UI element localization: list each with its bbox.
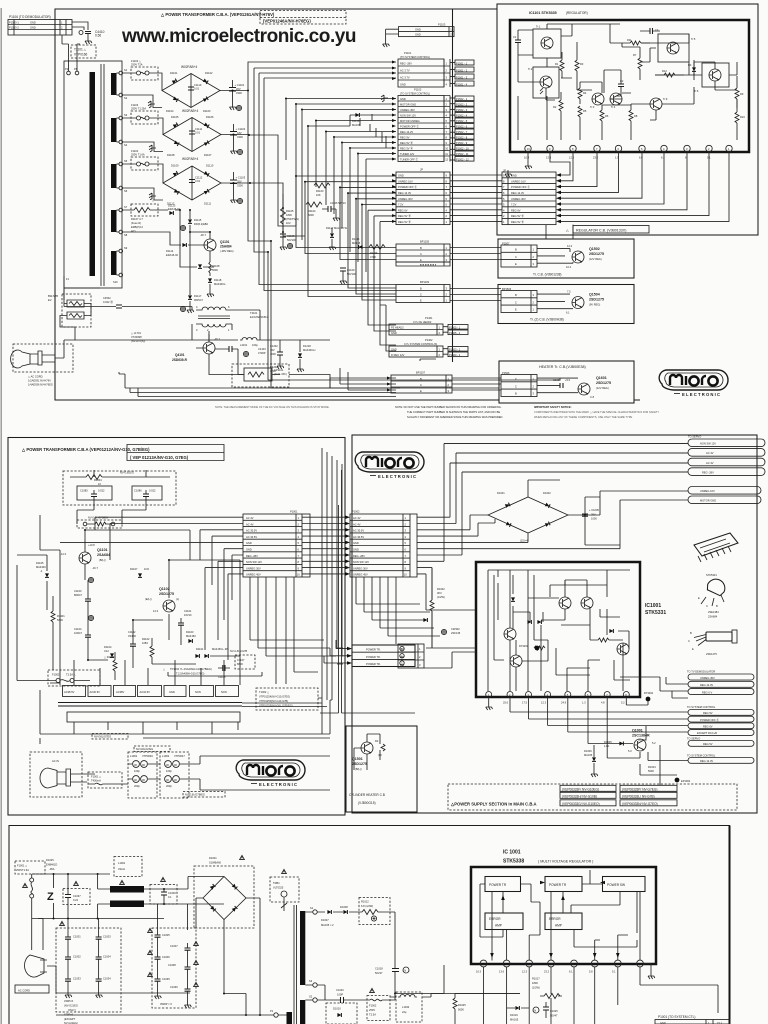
svg-text:P1502 - 3: P1502 - 3 bbox=[456, 108, 468, 112]
svg-text:AC34.5V: AC34.5V bbox=[140, 690, 151, 694]
micro logo top right bbox=[659, 370, 728, 397]
svg-text:UNREG 16V: UNREG 16V bbox=[398, 179, 413, 183]
Tr6 box bbox=[694, 63, 729, 93]
connector BP1107 bbox=[387, 371, 452, 394]
wires below right table bbox=[546, 225, 573, 239]
svg-text:MOTOR GND: MOTOR GND bbox=[700, 499, 716, 503]
resistor R1025 bbox=[453, 998, 466, 1024]
svg-text:D1218: D1218 bbox=[303, 344, 311, 348]
svg-text:IC1001: IC1001 bbox=[645, 603, 661, 609]
svg-text:AC 4V: AC 4V bbox=[246, 516, 254, 520]
capacitor C1102 bbox=[230, 124, 246, 155]
svg-text:Tr.4: Tr.4 bbox=[611, 105, 616, 109]
svg-text:(VEP06333N/ NV-G7EO): (VEP06333N/ NV-G7EO) bbox=[622, 802, 658, 806]
diode D1104 bbox=[104, 645, 114, 657]
wire P1106 to transformer primary bbox=[62, 35, 80, 71]
svg-text:COMPONENTS IDENTIFIED WITH THE: COMPONENTS IDENTIFIED WITH THE MARK △ HA… bbox=[534, 410, 659, 414]
svg-text:GND: GND bbox=[353, 541, 359, 545]
svg-text:P1001 (TO SYSTEM CTL): P1001 (TO SYSTEM CTL) bbox=[658, 1015, 696, 1019]
svg-text:3300: 3300 bbox=[237, 135, 243, 139]
svg-text:D1114: D1114 bbox=[166, 249, 174, 253]
internal transistors bbox=[504, 628, 516, 640]
svg-text:MA4150: MA4150 bbox=[186, 634, 196, 638]
resistor R1017 bbox=[532, 977, 562, 1005]
svg-text:(12V REG): (12V REG) bbox=[596, 386, 609, 390]
svg-text:200p: 200p bbox=[134, 784, 140, 788]
TO SERVO pill2 bbox=[687, 737, 754, 747]
svg-text:100P: 100P bbox=[337, 993, 343, 997]
resistor R1103 bbox=[314, 183, 330, 197]
resistor R1107 fuse resistor bbox=[123, 199, 162, 233]
svg-text:GND: GND bbox=[415, 33, 421, 37]
svg-text:IC1101 STK5335: IC1101 STK5335 bbox=[529, 11, 557, 15]
middle transformer core bbox=[58, 703, 242, 707]
IC1001 STK5331 block bbox=[476, 562, 666, 710]
svg-text:POWER TR: POWER TR bbox=[549, 883, 567, 887]
svg-text:P1502 - 12: P1502 - 12 bbox=[456, 157, 469, 161]
svg-text:250V T2A: 250V T2A bbox=[131, 63, 143, 67]
connector P1401 CYL FE HEADS bbox=[389, 316, 468, 335]
svg-text:AC30.5V: AC30.5V bbox=[90, 690, 101, 694]
svg-text:NON: NON bbox=[221, 690, 227, 694]
svg-text:GND: GND bbox=[391, 331, 397, 335]
svg-text:10.4: 10.4 bbox=[524, 156, 530, 160]
svg-text:REG 5V Ⓝ: REG 5V Ⓝ bbox=[511, 214, 524, 218]
wire lower runs to BP tables bbox=[268, 226, 396, 388]
svg-text:TO SYSTEM CONTROL: TO SYSTEM CONTROL bbox=[687, 754, 716, 758]
secondary winding bars bbox=[111, 73, 117, 95]
svg-text:(B(L)): (B(L)) bbox=[99, 558, 106, 562]
Tr4 transistor bbox=[610, 93, 622, 109]
bridge rectifier 2 bbox=[123, 109, 250, 157]
svg-text:D1113: D1113 bbox=[168, 204, 176, 208]
transistor Q4101 bbox=[172, 334, 220, 363]
svg-text:C1036: C1036 bbox=[170, 985, 178, 989]
svg-text:7.2V: 7.2V bbox=[511, 203, 517, 207]
svg-text:S1: S1 bbox=[124, 68, 128, 72]
svg-text:E1/G7EP0151G: E1/G7EP0151G bbox=[250, 315, 269, 319]
diode D1114 ERA15-02 bbox=[123, 232, 197, 257]
svg-text:6.0: 6.0 bbox=[639, 156, 643, 160]
svg-text:GND: GND bbox=[30, 21, 36, 25]
wire GND run bbox=[264, 78, 396, 291]
capacitor C1103 bbox=[74, 577, 94, 606]
svg-text:S3: S3 bbox=[124, 113, 128, 117]
svg-text:NON SW 12V: NON SW 12V bbox=[353, 560, 369, 564]
svg-text:D1105: D1105 bbox=[36, 561, 44, 565]
svg-text:STK5331: STK5331 bbox=[706, 573, 717, 577]
svg-text:HEATER Tr. C.B.(VJB00E38): HEATER Tr. C.B.(VJB00E38) bbox=[539, 365, 586, 369]
svg-text:1/4AE936 NV-H76EG: 1/4AE936 NV-H76EG bbox=[28, 383, 53, 387]
svg-text:Tr.3: Tr.3 bbox=[590, 105, 595, 109]
svg-text:REG 5V Ⓝ: REG 5V Ⓝ bbox=[511, 220, 524, 224]
connector P1106 (TO DEMODULATOR) bbox=[8, 15, 105, 71]
svg-text:R12: R12 bbox=[662, 69, 667, 73]
svg-text:Tr. (2) C.B. (VJB00H38): Tr. (2) C.B. (VJB00H38) bbox=[530, 318, 564, 322]
svg-text:D1118: D1118 bbox=[214, 278, 222, 282]
test point FP1002 bbox=[644, 691, 654, 701]
svg-text:R4: R4 bbox=[583, 91, 587, 95]
svg-text:+ C1103: + C1103 bbox=[236, 176, 246, 180]
svg-text:POWER OFF Ⓒ: POWER OFF Ⓒ bbox=[398, 185, 417, 189]
svg-text:+ C1005: + C1005 bbox=[589, 508, 599, 512]
svg-text:C1106 50V10: C1106 50V10 bbox=[330, 201, 346, 205]
core lines bbox=[101, 64, 104, 286]
capacitor bank C1005 group bbox=[148, 904, 199, 1008]
svg-text:-05A: -05A bbox=[49, 867, 55, 871]
svg-text:C1102: C1102 bbox=[128, 630, 136, 634]
svg-text:D1110: D1110 bbox=[206, 164, 214, 168]
svg-text:L1001: L1001 bbox=[130, 754, 138, 758]
svg-text:D1005: D1005 bbox=[604, 740, 612, 744]
svg-text:REG 5V: REG 5V bbox=[703, 742, 713, 746]
svg-text:POWER TR.: POWER TR. bbox=[366, 648, 381, 652]
connector P1101 (TO SYSTEM CONTROL) bbox=[392, 51, 474, 87]
svg-text:+ C1101: + C1101 bbox=[235, 83, 245, 87]
svg-text:NON SW 12V: NON SW 12V bbox=[400, 114, 416, 118]
svg-text:C1001: C1001 bbox=[73, 935, 81, 939]
svg-text:2SA684: 2SA684 bbox=[220, 245, 232, 249]
transformer T4101 bbox=[192, 305, 269, 340]
svg-text:S4: S4 bbox=[124, 143, 128, 147]
svg-text:N: N bbox=[404, 969, 406, 973]
svg-text:MA4300-H: MA4300-H bbox=[303, 348, 316, 352]
svg-text:REG 5V Ⓝ: REG 5V Ⓝ bbox=[398, 214, 411, 218]
primary winding bar bbox=[90, 72, 96, 276]
svg-text:UNREG 45V: UNREG 45V bbox=[400, 108, 415, 112]
connector JP table bbox=[392, 168, 450, 225]
svg-text:B: B bbox=[420, 286, 422, 290]
svg-text:D1002: D1002 bbox=[543, 491, 551, 495]
title POWER TRANSFORMER C.B.A middle bbox=[21, 445, 224, 461]
svg-text:S1: S1 bbox=[310, 906, 314, 910]
svg-text:VLT0325: VLT0325 bbox=[273, 886, 284, 890]
svg-text:P1503 - 2: P1503 - 2 bbox=[449, 353, 461, 357]
IC pins mid bbox=[486, 692, 492, 698]
svg-text:R1012: R1012 bbox=[361, 900, 369, 904]
svg-text:AC38V: AC38V bbox=[116, 690, 124, 694]
svg-text:D1104: D1104 bbox=[104, 645, 112, 649]
diode D1119 bbox=[180, 210, 214, 268]
svg-text:C1107: C1107 bbox=[237, 658, 245, 662]
svg-text:ERROR: ERROR bbox=[489, 917, 501, 921]
svg-text:7.2V: 7.2V bbox=[398, 203, 404, 207]
svg-text:IC 1001: IC 1001 bbox=[503, 850, 521, 856]
choke L4101 bbox=[240, 338, 259, 348]
svg-text:R1004: R1004 bbox=[648, 765, 656, 769]
POWER TR box 1 bbox=[485, 877, 521, 892]
svg-text:1J11: 1J11 bbox=[604, 744, 610, 748]
svg-text:GND: GND bbox=[398, 174, 404, 178]
svg-text:2SD1275: 2SD1275 bbox=[589, 298, 604, 302]
fuse F1102 bbox=[123, 59, 162, 80]
svg-text:GND: GND bbox=[400, 83, 406, 87]
svg-text:TUNER OFF Ⓒ: TUNER OFF Ⓒ bbox=[400, 158, 419, 162]
middle right panel border bbox=[352, 435, 757, 813]
svg-text:R1017: R1017 bbox=[532, 977, 540, 981]
svg-text:E: E bbox=[692, 647, 694, 651]
svg-text:REG 12.3V: REG 12.3V bbox=[700, 683, 713, 687]
svg-text:C: C bbox=[420, 383, 422, 387]
Tr5 box bbox=[658, 34, 696, 62]
svg-text:VTP0046: VTP0046 bbox=[142, 754, 153, 758]
svg-text:C: C bbox=[515, 384, 517, 388]
line filter L1001 bbox=[128, 752, 160, 798]
svg-text:(VEP01246A/NV-H76EG): (VEP01246A/NV-H76EG) bbox=[263, 19, 311, 24]
svg-text:THE CORRECT PART NUMBER IS SHO: THE CORRECT PART NUMBER IS SHOWN IN THE … bbox=[407, 410, 500, 414]
svg-text:STK5338: STK5338 bbox=[503, 859, 524, 865]
capacitor C1202 C1218 cluster bbox=[259, 340, 330, 373]
svg-text:0.56: 0.56 bbox=[95, 34, 101, 38]
svg-text:R1108: R1108 bbox=[212, 264, 220, 268]
diode D1007 bbox=[321, 910, 334, 927]
svg-text:100/47: 100/47 bbox=[74, 631, 82, 635]
svg-text:Tr. C.B. (VJB01238): Tr. C.B. (VJB01238) bbox=[533, 273, 561, 277]
svg-text:C1025: C1025 bbox=[550, 1009, 558, 1013]
svg-text:REG 9V: REG 9V bbox=[400, 136, 410, 140]
svg-text:C: C bbox=[688, 639, 690, 643]
svg-text:P1103: P1103 bbox=[438, 23, 446, 27]
svg-text:-16.7: -16.7 bbox=[92, 566, 98, 570]
svg-text:L4101: L4101 bbox=[240, 343, 248, 347]
svg-text:23.2: 23.2 bbox=[593, 156, 599, 160]
wires SMPS bbox=[64, 276, 260, 375]
long wire lower bottom bbox=[47, 966, 273, 1015]
wires from IC pins to outputs bbox=[424, 568, 688, 785]
svg-text:6.8 (1/2W): 6.8 (1/2W) bbox=[361, 904, 373, 908]
transistor Q1501 bbox=[361, 742, 373, 754]
wire REG-28V run bbox=[248, 62, 396, 241]
svg-text:5.3: 5.3 bbox=[628, 749, 632, 753]
svg-text:20V: 20V bbox=[236, 87, 241, 91]
svg-text:50V47: 50V47 bbox=[550, 1014, 558, 1018]
connector BP1105 bbox=[396, 240, 450, 267]
svg-text:D1111: D1111 bbox=[204, 202, 212, 206]
diode D1117 MALF40 bbox=[326, 226, 348, 250]
svg-text:P1: P1 bbox=[270, 1009, 274, 1013]
svg-text:R9: R9 bbox=[740, 92, 744, 96]
svg-text:REG -28V: REG -28V bbox=[400, 62, 412, 66]
heater transistor board VJB00E38 bbox=[499, 361, 634, 403]
capacitor C1106 bbox=[322, 201, 346, 221]
svg-text:D1001: D1001 bbox=[209, 856, 217, 860]
svg-text:23.2: 23.2 bbox=[544, 970, 550, 974]
svg-text:MA165: MA165 bbox=[352, 241, 361, 245]
svg-text:P1502 - 1: P1502 - 1 bbox=[456, 97, 468, 101]
svg-text:860/47: 860/47 bbox=[74, 593, 82, 597]
svg-text:UNREG 30V: UNREG 30V bbox=[353, 566, 368, 570]
svg-text:T2.5A △: T2.5A △ bbox=[66, 673, 76, 677]
svg-text:C1103: C1103 bbox=[74, 589, 82, 593]
internal wiring stk5338 bbox=[480, 870, 640, 961]
svg-text:P1502 - 5: P1502 - 5 bbox=[456, 119, 468, 123]
bridge rectifier 1 W02FAB bbox=[123, 65, 249, 113]
junction dots mid left bbox=[84, 529, 170, 661]
option dashed label NV-GxL bbox=[230, 649, 255, 669]
svg-text:S9: S9 bbox=[124, 246, 128, 250]
svg-text:MA4300: MA4300 bbox=[36, 565, 46, 569]
svg-text:E: E bbox=[420, 298, 422, 302]
micro logo mid right bbox=[355, 452, 424, 479]
wires P1002 fanout bbox=[417, 444, 688, 611]
svg-text:P1502 - 10: P1502 - 10 bbox=[456, 146, 469, 150]
svg-text:1K2: 1K2 bbox=[286, 221, 291, 225]
long vertical line right of connector tables bbox=[452, 9, 454, 362]
svg-text:D1116: D1116 bbox=[352, 119, 360, 123]
svg-text:B: B bbox=[515, 392, 517, 396]
svg-text:(1/2W): (1/2W) bbox=[437, 595, 445, 599]
svg-text:(VEP06333L/ NV-G7B): (VEP06333L/ NV-G7B) bbox=[622, 794, 655, 798]
svg-text:D1115: D1115 bbox=[352, 237, 360, 241]
dashed option box with R1004 bbox=[63, 471, 176, 506]
transistor board Tr C.B. VJB01238 bbox=[498, 239, 634, 278]
svg-text:6.1: 6.1 bbox=[661, 156, 665, 160]
svg-text:D1103: D1103 bbox=[186, 630, 194, 634]
middle transformer winding boxes bbox=[63, 686, 239, 697]
svg-text:0.022 Ⓜ: 0.022 Ⓜ bbox=[103, 300, 113, 304]
svg-text:P1505 - 2: P1505 - 2 bbox=[449, 331, 461, 335]
TO SERVO arrow pills bbox=[444, 435, 765, 476]
TO TV DEMODULATOR pills bbox=[687, 670, 754, 695]
svg-text:JP: JP bbox=[420, 168, 423, 172]
svg-text:www.microelectronic.co.yu: www.microelectronic.co.yu bbox=[121, 26, 356, 47]
line filter L1002 bbox=[160, 752, 330, 798]
capacitor C1102 bbox=[128, 630, 136, 651]
svg-text:(D.01-15K): (D.01-15K) bbox=[274, 372, 287, 376]
svg-text:(E(L)): (E(L)) bbox=[145, 597, 152, 601]
svg-text:D1107: D1107 bbox=[130, 567, 138, 571]
note important safety notice bbox=[534, 405, 659, 419]
svg-text:C1007: C1007 bbox=[170, 944, 178, 948]
svg-text:REG 6V: REG 6V bbox=[398, 208, 408, 212]
svg-text:BP1109: BP1109 bbox=[420, 280, 430, 284]
svg-text:+5.6: +5.6 bbox=[565, 378, 571, 382]
resistor R1401 bbox=[51, 596, 65, 640]
internal diode pair bbox=[527, 620, 531, 624]
svg-text:REG 6 V: REG 6 V bbox=[702, 690, 713, 694]
svg-text:REG 12.3V: REG 12.3V bbox=[398, 191, 411, 195]
svg-text:C1006: C1006 bbox=[162, 955, 170, 959]
svg-text:P2: P2 bbox=[65, 67, 69, 71]
svg-text:MA4300-L: MA4300-L bbox=[214, 282, 227, 286]
wire AC3.7V run bbox=[254, 68, 396, 252]
svg-text:100p: 100p bbox=[166, 769, 172, 773]
svg-text:UNREG 30V: UNREG 30V bbox=[398, 197, 413, 201]
svg-text:C1037: C1037 bbox=[73, 894, 81, 898]
svg-text:0.01: 0.01 bbox=[195, 179, 201, 183]
wire fan to JP table bbox=[296, 176, 396, 222]
svg-text:AC 30.5V: AC 30.5V bbox=[246, 535, 257, 539]
AC plug top panel bbox=[11, 344, 73, 387]
svg-text:(750/TWN): (750/TWN) bbox=[286, 217, 299, 221]
svg-text:Q1102: Q1102 bbox=[159, 587, 170, 591]
svg-text:(1/2W): (1/2W) bbox=[532, 986, 540, 990]
svg-text:P1001: P1001 bbox=[290, 510, 298, 514]
svg-text:AC 3.7V: AC 3.7V bbox=[400, 69, 410, 73]
svg-text:D1115: D1115 bbox=[194, 218, 202, 222]
resistor R10 bbox=[735, 108, 745, 135]
common mode choke bars bbox=[110, 886, 144, 893]
power transformer T1101 bbox=[64, 61, 128, 288]
T1002 label box bbox=[256, 688, 318, 710]
svg-text:GND: GND bbox=[511, 174, 517, 178]
svg-text:T1101 △: T1101 △ bbox=[74, 48, 87, 52]
svg-text:CYL FE HEAD2: CYL FE HEAD2 bbox=[413, 320, 432, 324]
svg-text:FP1002: FP1002 bbox=[644, 691, 654, 695]
svg-text:C1034: C1034 bbox=[103, 977, 111, 981]
svg-text:MA165 × 2: MA165 × 2 bbox=[321, 923, 334, 927]
svg-text:(Fuse R): (Fuse R) bbox=[131, 221, 141, 225]
svg-text:AMP: AMP bbox=[495, 924, 502, 928]
svg-text:1N3: 1N3 bbox=[144, 567, 149, 571]
svg-text:-14.3: -14.3 bbox=[60, 552, 66, 556]
ERROR AMP box 1 bbox=[485, 913, 523, 930]
svg-text:C1111: C1111 bbox=[195, 127, 203, 131]
svg-text:6.1: 6.1 bbox=[566, 311, 570, 315]
transformer T1001 bottom bbox=[270, 905, 336, 1024]
svg-text:33/100: 33/100 bbox=[128, 634, 136, 638]
svg-text:5600: 5600 bbox=[308, 213, 314, 217]
inductor L1002 bbox=[390, 992, 431, 1022]
wire S2 to right bbox=[395, 994, 520, 1001]
micro logo mid left bbox=[236, 760, 305, 787]
svg-text:T1002 △: T1002 △ bbox=[259, 690, 270, 694]
wires from stk5338 pins down bbox=[431, 965, 640, 1024]
svg-text:5600: 5600 bbox=[648, 769, 654, 773]
svg-text:5600: 5600 bbox=[212, 268, 218, 272]
svg-text:C1108: C1108 bbox=[218, 675, 226, 679]
svg-text:(TO SYSTEM CONTROL): (TO SYSTEM CONTROL) bbox=[400, 55, 430, 59]
svg-text:R6: R6 bbox=[605, 114, 609, 118]
svg-text:1.3: 1.3 bbox=[582, 701, 586, 705]
label TP1002 transistors bbox=[163, 667, 262, 676]
svg-text:PW: PW bbox=[400, 647, 405, 651]
svg-text:C1035: C1035 bbox=[162, 977, 170, 981]
wire bottom rail of SMPS bbox=[119, 372, 400, 388]
svg-text:S10: S10 bbox=[113, 280, 118, 284]
svg-text:CYLINDER HEATER C.B: CYLINDER HEATER C.B bbox=[349, 793, 385, 797]
svg-text:D1101: D1101 bbox=[170, 71, 178, 75]
svg-text:( MULTI VOLTAGE REGULATOR: ( MULTI VOLTAGE REGULATOR ) bbox=[538, 860, 593, 864]
svg-text:3300: 3300 bbox=[237, 184, 243, 188]
svg-text:2SC1384R: 2SC1384R bbox=[632, 734, 650, 738]
TO-220 package drawing bbox=[688, 630, 737, 656]
svg-text:UNREG 45V: UNREG 45V bbox=[246, 573, 261, 577]
diode D1103 bbox=[186, 630, 196, 643]
resistor R3 bbox=[575, 42, 584, 90]
svg-text:ERA15-02: ERA15-02 bbox=[166, 253, 179, 257]
svg-text:(VEP06333P/ NV-G7EG): (VEP06333P/ NV-G7EG) bbox=[622, 787, 657, 791]
svg-text:+ C1102: + C1102 bbox=[236, 127, 246, 131]
svg-text:W02FAB+4: W02FAB+4 bbox=[182, 157, 198, 161]
svg-text:100µ: 100µ bbox=[252, 343, 258, 347]
svg-text:100p: 100p bbox=[134, 769, 140, 773]
svg-text:D1008: D1008 bbox=[340, 905, 348, 909]
svg-text:N: N bbox=[534, 1009, 536, 1013]
svg-text:FP1003: FP1003 bbox=[519, 644, 529, 648]
capacitor C4502 bbox=[64, 296, 192, 308]
svg-text:6.1: 6.1 bbox=[569, 970, 573, 974]
diode D1019 bbox=[507, 1006, 530, 1022]
svg-text:C: C bbox=[420, 252, 422, 256]
internal wires bbox=[488, 570, 630, 691]
resistor R8 bbox=[629, 105, 638, 130]
svg-text:T2.5A: T2.5A bbox=[369, 1013, 376, 1017]
svg-text:-30.7: -30.7 bbox=[200, 233, 206, 237]
svg-text:(VEP06333H/ NV-G10B): (VEP06333H/ NV-G10B) bbox=[562, 794, 597, 798]
svg-text:D1104: D1104 bbox=[166, 109, 174, 113]
svg-text:D1107: D1107 bbox=[204, 153, 212, 157]
